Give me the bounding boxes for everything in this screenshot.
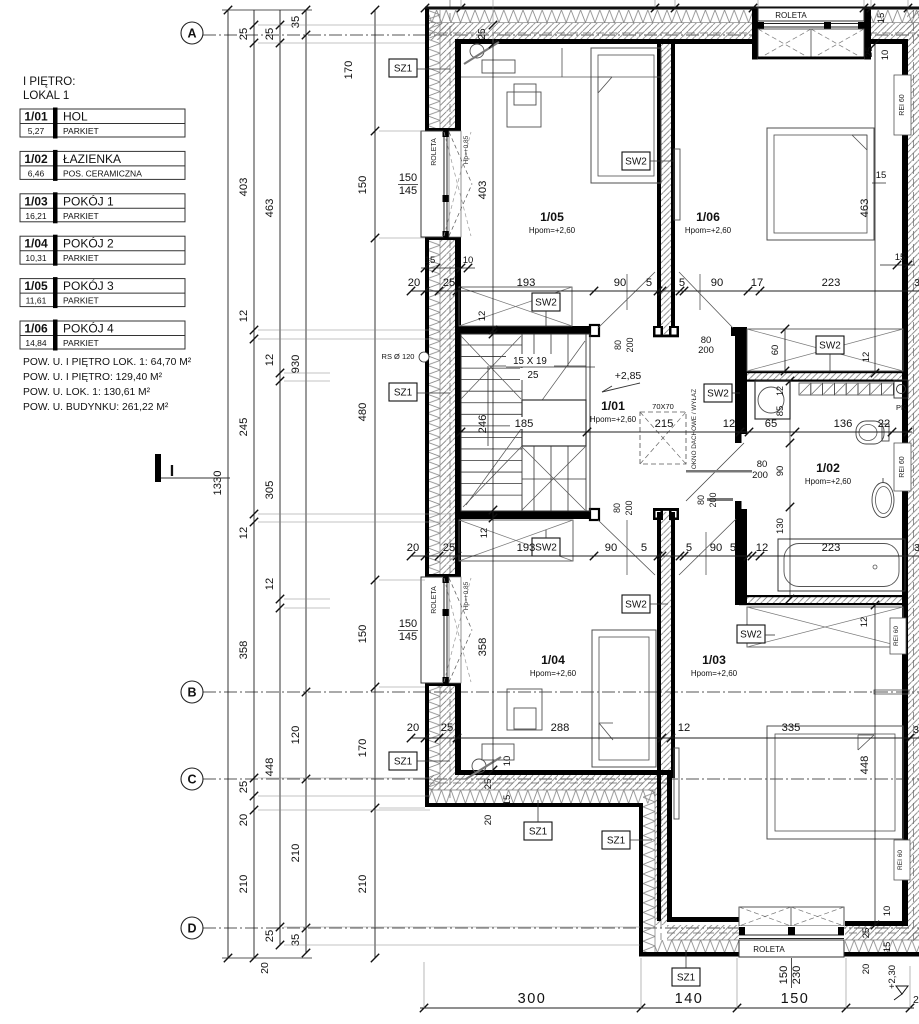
wardrobe SW2 top (1/05) bbox=[459, 287, 572, 326]
1/03 shelf bbox=[874, 690, 909, 694]
1/04 bottom wall inner line bbox=[456, 770, 675, 775]
svg-text:358: 358 bbox=[238, 641, 250, 660]
wardrobe SW2 (1/04) bbox=[459, 520, 573, 561]
interior wall 1/05-1/06 black edges bbox=[657, 43, 661, 334]
REI 60 marker bathroom bbox=[894, 443, 911, 491]
svg-text:10: 10 bbox=[880, 50, 891, 61]
svg-text:5: 5 bbox=[646, 277, 652, 289]
svg-text:223: 223 bbox=[822, 277, 841, 289]
window W-top roleta box bbox=[758, 8, 864, 21]
inner wall line, right bbox=[902, 39, 908, 925]
svg-text:20: 20 bbox=[861, 964, 872, 975]
REI 60 marker top bbox=[894, 75, 911, 135]
svg-text:60: 60 bbox=[770, 345, 781, 356]
axis D bbox=[203, 927, 919, 929]
svg-text:REI 60: REI 60 bbox=[899, 94, 906, 116]
svg-text:ROLETA: ROLETA bbox=[775, 11, 807, 20]
svg-text:ŁAZIENKA: ŁAZIENKA bbox=[63, 152, 121, 166]
svg-text:POKÓJ 2: POKÓJ 2 bbox=[63, 236, 114, 251]
interior wall upper end jambs bbox=[653, 326, 663, 337]
svg-text:210: 210 bbox=[290, 844, 302, 863]
svg-text:POW. U. LOK. 1: 130,61 M²: POW. U. LOK. 1: 130,61 M² bbox=[23, 387, 151, 398]
bathroom door jamb notches bbox=[742, 434, 748, 443]
svg-text:PARKIET: PARKIET bbox=[63, 126, 99, 136]
top wall layer dash line bbox=[427, 32, 919, 34]
svg-text:POKÓJ 1: POKÓJ 1 bbox=[63, 193, 114, 208]
1/03 door leaf bbox=[674, 748, 679, 819]
svg-text:930: 930 bbox=[290, 355, 302, 374]
svg-text:25: 25 bbox=[264, 28, 276, 40]
svg-text:448: 448 bbox=[264, 758, 276, 777]
svg-text:PARKIET: PARKIET bbox=[63, 296, 99, 306]
svg-text:12: 12 bbox=[859, 617, 870, 628]
SZ1 label bottom wall bbox=[672, 968, 700, 986]
svg-text:12: 12 bbox=[861, 352, 872, 363]
svg-text:358: 358 bbox=[477, 638, 489, 657]
1/04 bottom wall hatch bands bbox=[427, 775, 667, 790]
vertical dim line x493 bbox=[492, 44, 494, 770]
svg-text:10: 10 bbox=[882, 906, 893, 917]
svg-text:10: 10 bbox=[463, 255, 474, 266]
svg-text:1/02: 1/02 bbox=[816, 461, 840, 475]
svg-text:145: 145 bbox=[399, 631, 417, 643]
bathroom bottom wall hatch bbox=[747, 597, 905, 604]
svg-text:20: 20 bbox=[259, 962, 271, 974]
svg-text:480: 480 bbox=[357, 403, 369, 422]
interior wall 1/04-1/03 black edges bbox=[657, 512, 661, 921]
wall layer mini dims top-right bbox=[880, 264, 915, 266]
svg-text:200: 200 bbox=[752, 470, 768, 481]
svg-text:80: 80 bbox=[757, 459, 768, 470]
bathroom left wall bbox=[731, 327, 738, 336]
svg-text:20: 20 bbox=[483, 815, 494, 826]
window jamb right of top window bbox=[864, 7, 871, 60]
dim chain top connector bbox=[222, 9, 312, 11]
svg-text:1/03: 1/03 bbox=[24, 194, 48, 208]
top wall insulation zigzag band bbox=[427, 10, 758, 23]
left wall insulation zigzag band bbox=[427, 10, 440, 128]
svg-text:SW2: SW2 bbox=[819, 341, 841, 352]
svg-text:145: 145 bbox=[399, 185, 417, 197]
witness lines bbox=[379, 130, 425, 132]
svg-text:12: 12 bbox=[678, 722, 690, 734]
wardrobe SW2 strip above bathroom bbox=[747, 329, 903, 371]
svg-text:12: 12 bbox=[479, 528, 490, 539]
svg-text:463: 463 bbox=[859, 199, 871, 218]
svg-text:15: 15 bbox=[895, 252, 906, 263]
svg-text:POKÓJ 3: POKÓJ 3 bbox=[63, 278, 114, 293]
svg-text:25: 25 bbox=[441, 722, 453, 734]
stairs label 15x19 bbox=[506, 354, 554, 367]
top chain witness stubs bbox=[460, 0, 462, 10]
legend row 1/06 bbox=[20, 321, 185, 349]
svg-text:1/01: 1/01 bbox=[24, 110, 48, 124]
svg-text:PK: PK bbox=[896, 403, 906, 412]
svg-text:335: 335 bbox=[782, 722, 801, 734]
grid bubble B bbox=[181, 681, 203, 703]
stairs left flight treads bbox=[461, 344, 522, 346]
door swing 1/04 bbox=[598, 520, 655, 575]
svg-text:3: 3 bbox=[914, 542, 919, 554]
svg-text:200: 200 bbox=[708, 492, 718, 507]
axis A bbox=[203, 34, 919, 36]
svg-text:245: 245 bbox=[238, 418, 250, 437]
svg-text:SZ1: SZ1 bbox=[394, 757, 413, 768]
SZ1 label step wall bbox=[602, 831, 630, 849]
svg-text:85: 85 bbox=[775, 406, 786, 417]
svg-text:193: 193 bbox=[517, 277, 536, 289]
legend row 1/04 bbox=[20, 236, 185, 264]
window jamb left of top window bbox=[752, 7, 758, 60]
washbasin cabinet bbox=[755, 381, 790, 419]
1/06 bed bbox=[767, 128, 874, 240]
door swing 1/03 bbox=[679, 519, 736, 575]
stairs top flight risers bbox=[533, 334, 535, 366]
wardrobe SW2 label (1/04) bbox=[532, 538, 560, 556]
1/05 shelf line bbox=[461, 76, 661, 78]
top wall structural hatch band bbox=[427, 23, 758, 40]
svg-text:5: 5 bbox=[686, 542, 692, 554]
window W-left-upper sill lines bbox=[425, 128, 461, 131]
svg-text:25: 25 bbox=[443, 277, 455, 289]
svg-text:3: 3 bbox=[913, 724, 919, 736]
stairs walk line diagonals bbox=[461, 336, 521, 399]
svg-text:25: 25 bbox=[864, 47, 875, 58]
svg-text:12: 12 bbox=[477, 311, 488, 322]
svg-text:SW2: SW2 bbox=[535, 298, 557, 309]
svg-text:1330: 1330 bbox=[212, 471, 224, 496]
outer wall top line bbox=[425, 7, 919, 10]
bottom dim chain bbox=[420, 1007, 914, 1009]
svg-text:150: 150 bbox=[357, 625, 369, 644]
legend row 1/01 bbox=[20, 109, 185, 137]
svg-text:2: 2 bbox=[913, 994, 919, 1006]
dim chain line 3 bbox=[279, 10, 281, 945]
window W-left-upper reveal bbox=[449, 131, 461, 237]
window W-bottom casement boxes bbox=[739, 907, 844, 926]
svg-text:25: 25 bbox=[528, 370, 539, 381]
section marker I bbox=[155, 454, 161, 482]
svg-text:150: 150 bbox=[781, 991, 810, 1007]
window W-left-lower frame and glazing bbox=[442, 577, 450, 683]
left wall layer dash line bbox=[449, 0, 451, 128]
svg-text:230: 230 bbox=[791, 966, 803, 985]
1/05 counter divider bbox=[561, 48, 563, 77]
window W-left-upper frame and glazing bbox=[442, 131, 450, 237]
skylight dashed box bbox=[640, 412, 686, 464]
stairs partition wall top bbox=[457, 326, 594, 334]
svg-text:25: 25 bbox=[238, 28, 250, 40]
door swing 1/05 bbox=[598, 272, 655, 328]
outer wall left line bbox=[425, 7, 429, 129]
bottom wall hatch bands left of window bbox=[667, 925, 739, 940]
svg-text:90: 90 bbox=[711, 277, 723, 289]
svg-text:12: 12 bbox=[264, 354, 276, 366]
svg-text:6,46: 6,46 bbox=[28, 168, 45, 178]
svg-text:C: C bbox=[187, 773, 196, 787]
1/03 bed fold bbox=[858, 735, 874, 750]
svg-text:246: 246 bbox=[477, 415, 489, 434]
svg-text:15: 15 bbox=[425, 255, 436, 266]
svg-text:10,31: 10,31 bbox=[25, 253, 47, 263]
svg-text:70X70: 70X70 bbox=[652, 402, 674, 411]
svg-text:16,21: 16,21 bbox=[25, 211, 47, 221]
svg-text:1/04: 1/04 bbox=[24, 237, 48, 251]
svg-text:136: 136 bbox=[834, 418, 853, 430]
svg-text:1/05: 1/05 bbox=[24, 279, 48, 293]
wardrobe depth dim bbox=[784, 329, 786, 371]
svg-text:15: 15 bbox=[876, 13, 887, 24]
svg-text:1/05: 1/05 bbox=[540, 210, 564, 224]
1/06 bed fold bbox=[852, 135, 867, 150]
REI 60 marker mid bbox=[890, 618, 906, 654]
svg-text:REI 60: REI 60 bbox=[897, 850, 904, 870]
lower mid dim chain y556 bbox=[411, 555, 919, 557]
bathtub bbox=[778, 539, 905, 591]
SW2 label door 1/04 bbox=[622, 595, 650, 613]
1/04 bottom wall outer line bbox=[425, 803, 643, 807]
svg-text:403: 403 bbox=[238, 178, 250, 197]
svg-text:90: 90 bbox=[710, 542, 722, 554]
svg-text:80: 80 bbox=[613, 340, 623, 350]
bottom wall hatch bands right of window bbox=[845, 925, 919, 940]
svg-text:POS. CERAMICZNA: POS. CERAMICZNA bbox=[63, 168, 142, 178]
svg-text:1/06: 1/06 bbox=[696, 210, 720, 224]
svg-text:SW2: SW2 bbox=[740, 630, 762, 641]
SZ1 label mid-left bbox=[389, 383, 417, 401]
svg-text:REI 60: REI 60 bbox=[899, 456, 906, 478]
chain y738 bbox=[411, 737, 919, 739]
svg-text:200: 200 bbox=[624, 500, 634, 515]
svg-text:D: D bbox=[187, 922, 196, 936]
svg-text:5: 5 bbox=[730, 542, 736, 554]
bathroom bottom wall edges bbox=[739, 595, 905, 597]
svg-text:1/02: 1/02 bbox=[24, 152, 48, 166]
dim chain line 2 bbox=[253, 10, 255, 958]
upper mid dim chain y291 bbox=[411, 290, 919, 292]
level triangle bottom right bbox=[896, 986, 908, 994]
svg-text:LOKAL 1: LOKAL 1 bbox=[23, 90, 69, 102]
SZ1 label bottom wall 1/04 bbox=[524, 822, 552, 840]
svg-text:305: 305 bbox=[264, 481, 276, 500]
interior wall 1/04-1/03 hatch bbox=[661, 512, 671, 921]
window W-bottom roleta box bbox=[739, 940, 844, 957]
svg-text:463: 463 bbox=[264, 199, 276, 218]
SZ1 label lower-left bbox=[389, 752, 417, 770]
svg-text:17: 17 bbox=[751, 277, 763, 289]
bathroom top wall hatch bbox=[747, 373, 903, 381]
chain y432 hall/bathroom bbox=[461, 431, 912, 433]
svg-text:SZ1: SZ1 bbox=[607, 836, 626, 847]
svg-text:20: 20 bbox=[408, 277, 420, 289]
right wall layer dash line bbox=[913, 10, 915, 945]
dim chain bottom connector bbox=[222, 957, 312, 959]
svg-text:12: 12 bbox=[238, 310, 250, 322]
1/04 armchair bbox=[507, 689, 542, 730]
RS drain note bbox=[376, 350, 423, 361]
svg-text:200: 200 bbox=[698, 345, 714, 356]
wardrobe SW2 label top bbox=[532, 293, 560, 311]
svg-text:200: 200 bbox=[625, 337, 635, 352]
grid bubble A bbox=[181, 22, 203, 44]
svg-text:HOL: HOL bbox=[63, 110, 88, 124]
vertical dim line x875 (1/03) bbox=[874, 605, 876, 925]
SW2 label door 1/06 bbox=[622, 152, 650, 170]
stairs enclosure bbox=[461, 334, 590, 511]
svg-text:ROLETA: ROLETA bbox=[431, 586, 438, 614]
svg-text:215: 215 bbox=[655, 418, 674, 430]
svg-text:90: 90 bbox=[775, 466, 786, 477]
window W-left-lower reveal bbox=[449, 577, 461, 683]
door swing 1/06 bbox=[679, 272, 733, 328]
svg-text:SZ1: SZ1 bbox=[394, 64, 413, 75]
svg-text:25: 25 bbox=[238, 781, 250, 793]
door swing bathroom bbox=[686, 443, 744, 501]
door jamb block bottom bbox=[590, 509, 599, 520]
svg-text:25: 25 bbox=[477, 28, 488, 40]
1/04 chair bbox=[472, 759, 486, 773]
PK vent bbox=[894, 380, 908, 398]
svg-text:12: 12 bbox=[756, 542, 768, 554]
window W-top glazing bbox=[758, 22, 864, 30]
svg-text:+2,30: +2,30 bbox=[887, 965, 898, 989]
svg-text:SZ1: SZ1 bbox=[529, 827, 548, 838]
svg-text:REI 60: REI 60 bbox=[893, 626, 900, 646]
axis C bbox=[203, 778, 919, 780]
svg-text:POKÓJ 4: POKÓJ 4 bbox=[63, 321, 114, 336]
SW2 label bathroom door bbox=[704, 384, 732, 402]
window W-left-upper roleta box bbox=[421, 131, 443, 237]
bottom step wall inner line bbox=[667, 775, 672, 921]
svg-text:150: 150 bbox=[399, 172, 417, 184]
svg-text:20: 20 bbox=[407, 542, 419, 554]
stairs center stringer bbox=[521, 334, 523, 511]
svg-text:OKNO DACHOWE / WYŁAZ: OKNO DACHOWE / WYŁAZ bbox=[691, 389, 698, 469]
svg-text:+2,85: +2,85 bbox=[615, 370, 642, 382]
grid bubble C bbox=[181, 768, 203, 790]
svg-text:170: 170 bbox=[357, 739, 369, 758]
svg-text:11,61: 11,61 bbox=[26, 296, 47, 306]
svg-text:150: 150 bbox=[357, 176, 369, 195]
svg-text:SZ1: SZ1 bbox=[677, 973, 696, 984]
svg-text:1/04: 1/04 bbox=[541, 653, 565, 667]
interior wall 1/05-1/06 hatch bbox=[661, 43, 671, 334]
interior wall lower end jambs bbox=[653, 508, 663, 520]
svg-text:80: 80 bbox=[696, 495, 706, 505]
sink bbox=[872, 483, 894, 518]
bottom wall outer line bbox=[639, 952, 919, 957]
svg-text:300: 300 bbox=[518, 991, 547, 1007]
svg-text:PARKIET: PARKIET bbox=[63, 338, 99, 348]
1/05 chair bbox=[470, 44, 484, 58]
svg-text:120: 120 bbox=[290, 726, 302, 745]
1/06 door leaf bbox=[674, 149, 680, 220]
svg-text:210: 210 bbox=[357, 875, 369, 894]
svg-text:POW. U. I PIĘTRO: 129,40 M²: POW. U. I PIĘTRO: 129,40 M² bbox=[23, 372, 163, 383]
1/03 bed bbox=[767, 726, 903, 839]
tile shelf row bbox=[799, 383, 811, 395]
legend row 1/02 bbox=[20, 151, 185, 179]
svg-text:12: 12 bbox=[264, 578, 276, 590]
inner wall line, room 1/05 top bbox=[455, 39, 758, 44]
svg-text:65: 65 bbox=[765, 418, 777, 430]
svg-text:25: 25 bbox=[443, 542, 455, 554]
vertical dim line x875 (1/06) bbox=[874, 44, 876, 373]
svg-text:I PIĘTRO:: I PIĘTRO: bbox=[23, 76, 75, 88]
svg-text:448: 448 bbox=[859, 756, 871, 775]
stairs partition wall bottom bbox=[457, 511, 594, 519]
svg-text:ROLETA: ROLETA bbox=[431, 138, 438, 166]
svg-text:1/06: 1/06 bbox=[24, 322, 48, 336]
svg-text:POW. U. I PIĘTRO LOK. 1: 64,70: POW. U. I PIĘTRO LOK. 1: 64,70 M² bbox=[23, 357, 192, 368]
1/05 bed fold bbox=[598, 77, 612, 93]
legend row 1/03 bbox=[20, 194, 185, 222]
svg-text:150: 150 bbox=[399, 618, 417, 630]
bathroom top wall edges bbox=[747, 371, 903, 373]
stairs landing bbox=[522, 400, 586, 446]
wardrobe SW2 label above bathroom bbox=[816, 336, 844, 354]
svg-text:12: 12 bbox=[775, 386, 785, 396]
svg-text:A: A bbox=[187, 27, 196, 41]
svg-text:1/01: 1/01 bbox=[601, 399, 625, 413]
svg-text:22: 22 bbox=[878, 418, 890, 430]
svg-text:B: B bbox=[187, 686, 196, 700]
toilet bbox=[856, 421, 884, 444]
svg-text:SW2: SW2 bbox=[707, 389, 729, 400]
svg-text:1/03: 1/03 bbox=[702, 653, 726, 667]
svg-text:Hpom=+2,60: Hpom=+2,60 bbox=[590, 415, 637, 424]
door jamb block top bbox=[590, 325, 599, 336]
wardrobe SW2 label below bathroom bbox=[737, 625, 765, 643]
svg-text:Hpom=+2,60: Hpom=+2,60 bbox=[685, 226, 732, 235]
svg-text:90: 90 bbox=[605, 542, 617, 554]
svg-text:12: 12 bbox=[723, 418, 735, 430]
svg-text:3: 3 bbox=[914, 277, 919, 289]
svg-text:20: 20 bbox=[238, 814, 250, 826]
svg-text:15 X 19: 15 X 19 bbox=[513, 356, 547, 367]
1/04 bed bbox=[592, 630, 656, 767]
1/05 armchair bbox=[507, 92, 541, 127]
1/04 bed fold bbox=[599, 723, 613, 740]
svg-text:10: 10 bbox=[502, 756, 513, 767]
svg-text:5: 5 bbox=[641, 542, 647, 554]
svg-text:35: 35 bbox=[290, 934, 302, 946]
svg-text:170: 170 bbox=[343, 61, 355, 80]
dim chain window line x375 bbox=[374, 10, 376, 958]
svg-text:RS Ø 120: RS Ø 120 bbox=[382, 352, 415, 361]
bottom step wall outer line bbox=[639, 803, 643, 956]
svg-text:140: 140 bbox=[675, 991, 704, 1007]
svg-text:Hpom=+2,60: Hpom=+2,60 bbox=[529, 226, 576, 235]
top dim chain bbox=[425, 7, 919, 9]
svg-text:SZ1: SZ1 bbox=[394, 388, 413, 399]
window W-top casement boxes bbox=[758, 29, 864, 59]
window W-left-lower roleta box bbox=[421, 577, 443, 683]
svg-text:35: 35 bbox=[290, 16, 302, 28]
dim chain line 1 (1330) bbox=[227, 10, 229, 958]
svg-text:130: 130 bbox=[775, 518, 786, 534]
svg-text:12: 12 bbox=[238, 527, 250, 539]
bottom wall inner line bbox=[667, 917, 739, 922]
svg-text:15: 15 bbox=[876, 170, 887, 181]
window W-bottom glazing bbox=[739, 926, 844, 940]
svg-text:PARKIET: PARKIET bbox=[63, 253, 99, 263]
wardrobe SW2 strip below bathroom bbox=[747, 607, 903, 647]
svg-text:I: I bbox=[170, 463, 174, 480]
svg-text:Hpom=+2,60: Hpom=+2,60 bbox=[805, 477, 852, 486]
svg-text:14,84: 14,84 bbox=[25, 338, 47, 348]
legend row 1/05 bbox=[20, 279, 185, 307]
